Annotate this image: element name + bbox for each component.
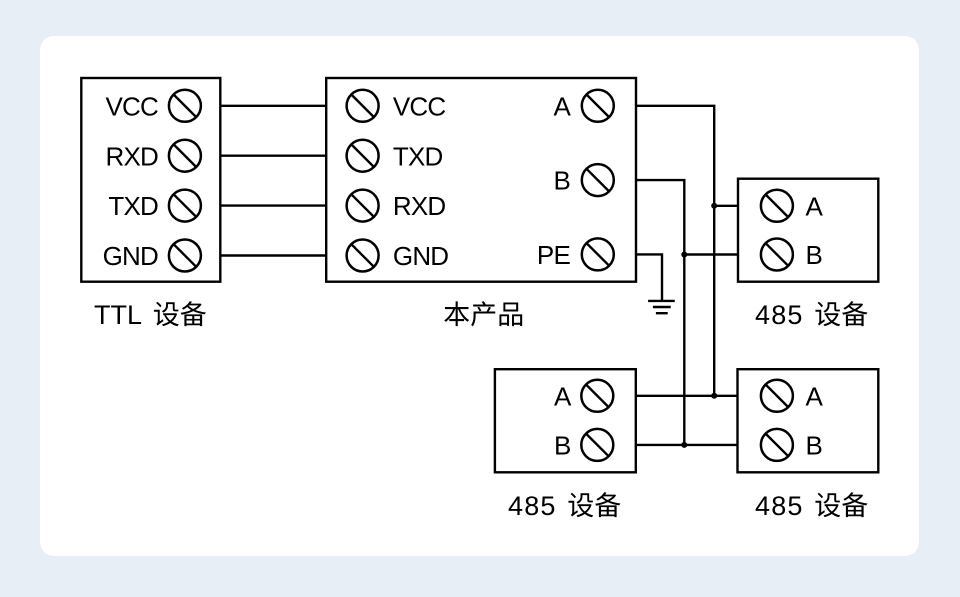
terminal screw TXD (product) — [347, 140, 379, 172]
terminal screw GND (product) — [347, 240, 379, 272]
terminal screw A (485 bottom-middle) — [581, 380, 613, 412]
junction dot net A at bottom tee — [711, 393, 717, 399]
svg-text:TXD: TXD — [393, 141, 443, 171]
wire net A: bottom horizontal between 485 boxes — [636, 395, 738, 397]
svg-text:VCC: VCC — [393, 91, 446, 121]
wire TXD-RXD: TTL to product — [220, 204, 326, 206]
caption 485 设备 (top right) — [755, 300, 868, 330]
svg-text:B: B — [554, 431, 571, 461]
svg-text:TXD: TXD — [108, 191, 158, 221]
ground symbol — [648, 301, 675, 313]
terminal screw TXD (TTL) — [169, 190, 201, 222]
svg-text:A: A — [806, 191, 824, 221]
terminal screw VCC (product) — [347, 90, 379, 122]
svg-text:RXD: RXD — [393, 191, 446, 221]
terminal screw GND (TTL) — [169, 240, 201, 272]
terminal screw A (product) — [582, 90, 614, 122]
wire net A: branch to 485 top A — [714, 205, 738, 207]
terminal screw RXD (TTL) — [169, 140, 201, 172]
terminal screw B (product) — [582, 164, 614, 196]
svg-text:A: A — [554, 381, 572, 411]
caption TTL 设备 — [94, 300, 206, 330]
white card — [40, 36, 919, 556]
terminal screw RXD (product) — [347, 190, 379, 222]
svg-text:485: 485 — [755, 300, 804, 330]
svg-text:B: B — [806, 240, 823, 270]
junction dot net A at 485 top branch — [711, 203, 717, 209]
terminal screw B (485 bottom-middle) — [581, 429, 613, 461]
svg-text:485: 485 — [755, 491, 804, 521]
terminal screw VCC (TTL) — [169, 90, 201, 122]
svg-text:TTL: TTL — [94, 300, 142, 330]
svg-text:B: B — [806, 431, 823, 461]
caption 本产品 — [444, 301, 522, 326]
svg-text:PE: PE — [537, 240, 571, 270]
svg-text:GND: GND — [103, 241, 158, 271]
box 485 device bottom-right — [738, 369, 879, 472]
box TTL device — [81, 78, 220, 282]
junction dot net B at bottom tee — [681, 442, 687, 448]
wire net B: product B right then down — [636, 180, 684, 445]
junction dot net B at 485 top branch — [681, 252, 687, 258]
caption 485 设备 (bottom middle) — [508, 491, 621, 521]
svg-text:A: A — [806, 381, 824, 411]
box 485 device bottom-middle — [495, 369, 636, 472]
wire RXD-TXD: TTL to product — [220, 154, 326, 156]
terminal screw A (485 top) — [761, 190, 793, 222]
terminal screw B (485 top) — [761, 239, 793, 271]
svg-text:A: A — [553, 91, 571, 121]
svg-text:VCC: VCC — [106, 91, 159, 121]
terminal screw B (485 bottom-right) — [761, 429, 793, 461]
wire GND: TTL to product — [220, 254, 326, 256]
wire net B: branch to 485 top B — [684, 253, 738, 255]
svg-text:RXD: RXD — [106, 141, 159, 171]
wire VCC: TTL to product — [220, 105, 326, 107]
caption 485 设备 (bottom right) — [755, 491, 868, 521]
terminal screw A (485 bottom-right) — [761, 380, 793, 412]
wire net PE: product PE to ground — [636, 254, 662, 301]
svg-text:485: 485 — [508, 491, 557, 521]
svg-text:GND: GND — [393, 241, 448, 271]
svg-text:B: B — [553, 166, 570, 196]
wire net B: bottom horizontal between 485 boxes — [636, 444, 738, 446]
terminal screw PE (product) — [582, 238, 614, 270]
box product (本产品) — [326, 78, 636, 282]
box 485 device top-right — [738, 179, 878, 282]
wire net A: product A right then down — [636, 106, 714, 396]
